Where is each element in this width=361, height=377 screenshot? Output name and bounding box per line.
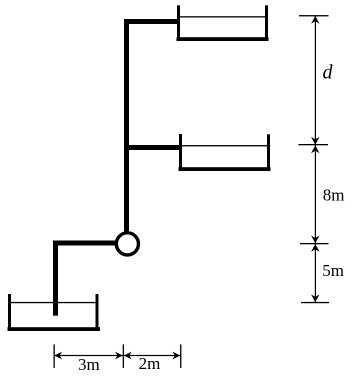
arrowhead down at lower water tick: [311, 294, 320, 302]
svg-text:2m: 2m: [139, 354, 161, 373]
bottom dimension tick under left riser: [54, 344, 55, 368]
arrowhead left at 3m left end: [54, 352, 62, 360]
dimension tick at upper tank water level: [299, 15, 329, 16]
arrowhead up at middle tank tick: [311, 145, 320, 153]
upper tank bottom: [177, 37, 269, 41]
arrowhead up at pump tick: [311, 244, 320, 252]
dimension line 5m (vertical): [315, 244, 316, 303]
pipe: top horizontal from main riser to upper tank: [124, 19, 178, 24]
pipe: suction horizontal from left riser to pump: [53, 241, 116, 246]
pipe: main vertical riser: [124, 19, 129, 232]
pipe: left vertical into lower tank: [53, 241, 58, 316]
pipe: branch horizontal to middle tank: [124, 145, 180, 150]
middle tank water surface line: [182, 145, 267, 146]
pump circle: [116, 233, 138, 255]
middle tank left wall: [179, 134, 182, 171]
arrowhead right at 2m right end: [172, 352, 180, 360]
dimension tick at middle tank water level: [299, 144, 329, 145]
bottom dimension tick under main riser: [123, 344, 124, 368]
svg-text:8m: 8m: [323, 185, 345, 204]
arrowhead down at middle tank tick: [311, 137, 320, 145]
lower tank right wall: [96, 294, 99, 331]
arrowhead down at pump tick: [311, 236, 320, 244]
middle tank bottom: [179, 167, 271, 171]
lower tank bottom: [8, 327, 101, 331]
lower tank left wall: [8, 294, 11, 331]
dimension line 8m (vertical): [315, 145, 316, 244]
svg-text:5m: 5m: [322, 261, 344, 280]
upper tank water surface line: [180, 16, 265, 17]
upper tank right wall: [265, 5, 268, 41]
dimension line d (vertical): [315, 16, 316, 145]
dimension tick at lower tank water level: [301, 302, 329, 303]
bottom dimension tick under tank wall: [180, 344, 181, 368]
arrowhead right at 3m right end: [115, 352, 123, 360]
dimension line 3m (horizontal): [54, 355, 123, 356]
dimension tick at pump level: [300, 243, 329, 244]
arrowhead left at 2m left end: [124, 352, 132, 360]
svg-text:3m: 3m: [78, 355, 100, 374]
upper tank left wall: [177, 5, 180, 41]
svg-text:d: d: [323, 62, 334, 84]
dimension line 2m (horizontal): [123, 355, 180, 356]
arrowhead up at top tick: [311, 16, 320, 24]
middle tank right wall: [267, 134, 270, 171]
lower tank water surface line: [11, 302, 96, 303]
